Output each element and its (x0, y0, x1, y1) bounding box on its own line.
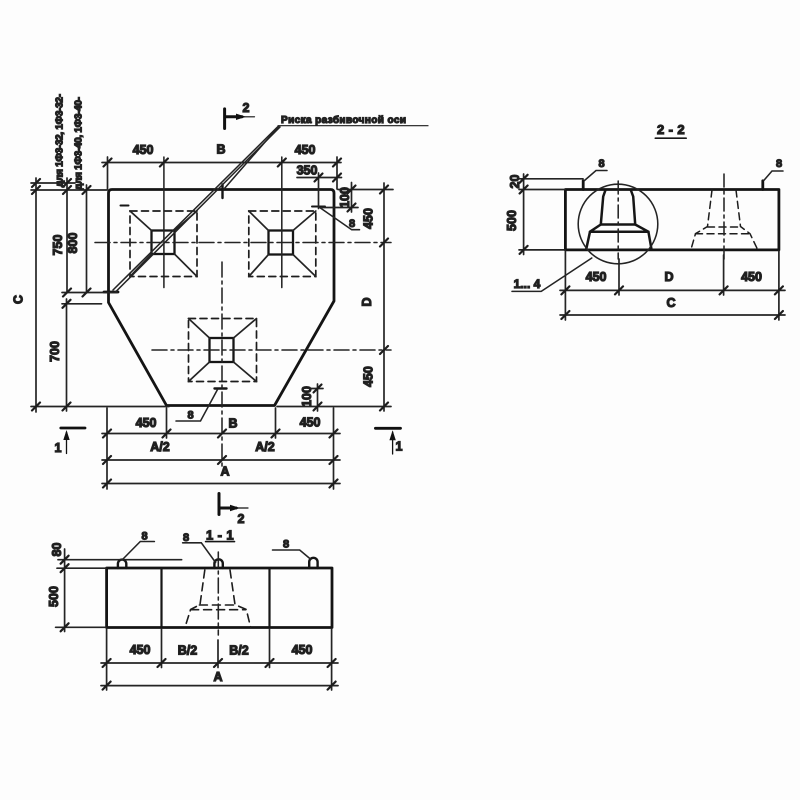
svg-text:700: 700 (48, 341, 62, 362)
lifting loop 3 (309, 558, 317, 568)
section 1-1 bottom dimension rows (101, 629, 338, 690)
svg-text:D: D (360, 297, 374, 306)
plan bottom riska mark (215, 387, 227, 389)
vertical center axis of plan (221, 262, 223, 470)
svg-text:20: 20 (508, 175, 522, 189)
svg-text:450: 450 (136, 416, 157, 430)
section 2-2 right loop tick (761, 181, 764, 190)
dimension 100 bottom right (310, 384, 323, 411)
leader 8 loop3 (273, 550, 311, 559)
svg-text:450: 450 (300, 416, 321, 430)
right socket riska mark (312, 206, 325, 208)
svg-text:1: 1 (55, 441, 62, 455)
leader 8 right socket (319, 207, 360, 230)
svg-text:2: 2 (243, 101, 250, 115)
svg-text:800: 800 (66, 233, 80, 254)
right main dimension column 450 D 450 (277, 183, 391, 411)
section marker 1 left (61, 428, 85, 454)
svg-text:B/2: B/2 (229, 644, 249, 658)
bottom dimension rows of plan (102, 408, 340, 489)
svg-text:D: D (664, 270, 673, 284)
horizontal axis line top sockets (95, 242, 391, 244)
section 2-2 dashed pedestal axis (723, 174, 725, 259)
svg-text:A/2: A/2 (255, 440, 275, 454)
right socket diagonals (249, 211, 316, 277)
svg-text:500: 500 (505, 210, 519, 231)
svg-text:100: 100 (300, 386, 314, 407)
svg-text:100: 100 (338, 187, 352, 208)
left socket dashed square (130, 211, 197, 277)
lifting loop 2 (214, 559, 222, 568)
section 2-2 left dimension column 20 500 (519, 174, 583, 255)
leader 8 loop1 (123, 542, 155, 560)
left socket vertical centerline (163, 157, 165, 288)
svg-text:1... 4: 1... 4 (514, 277, 541, 291)
svg-text:450: 450 (361, 366, 375, 387)
svg-text:B: B (216, 143, 225, 157)
svg-text:1: 1 (396, 440, 403, 454)
svg-text:450: 450 (130, 643, 151, 657)
section 2-2 body rectangle (565, 190, 779, 250)
leader 8 right loop 2-2 (764, 171, 783, 180)
section 2-2 solid pedestal axis (617, 181, 619, 259)
section marker 1 right (375, 428, 400, 454)
section 1-1 joint line right (268, 569, 270, 628)
svg-text:A: A (220, 465, 229, 479)
svg-text:750: 750 (51, 235, 65, 256)
svg-text:8: 8 (349, 218, 355, 230)
leader 8 left loop 2-2 (585, 171, 608, 181)
left dimension columns C 750 800 700 (31, 178, 169, 412)
bottom socket inner square (210, 338, 234, 362)
svg-text:C: C (666, 296, 675, 310)
svg-text:8: 8 (187, 410, 193, 422)
right socket vertical centerline (281, 157, 283, 288)
section 2-2 bottom dimension rows (560, 251, 785, 320)
leader 8 bottom socket (176, 390, 218, 422)
bottom socket diagonals (189, 319, 257, 382)
right socket inner square (269, 231, 294, 255)
svg-text:8: 8 (776, 158, 782, 170)
svg-text:B/2: B/2 (178, 644, 198, 658)
svg-text:450: 450 (133, 143, 154, 157)
svg-text:80: 80 (50, 543, 64, 557)
dimension 350 (297, 173, 342, 209)
leader 8 loop2 (183, 543, 216, 563)
svg-text:450: 450 (295, 143, 316, 157)
svg-text:Риска разбивочной оси: Риска разбивочной оси (281, 114, 406, 126)
section 2-2 left loop tick (582, 181, 585, 190)
svg-text:8: 8 (183, 532, 189, 544)
svg-text:1 - 1: 1 - 1 (206, 528, 234, 543)
lifting loop 1 (118, 560, 126, 568)
section 1-1 center axis (217, 552, 219, 635)
bottom socket dashed square (189, 319, 257, 382)
svg-text:8: 8 (598, 158, 604, 170)
svg-text:B: B (228, 417, 237, 431)
top dimension row 450 B 450 (102, 157, 341, 189)
svg-text:500: 500 (47, 586, 61, 607)
svg-text:450: 450 (741, 270, 762, 284)
svg-text:для 1Ф3-40, 1Ф3-40-: для 1Ф3-40, 1Ф3-40- (74, 97, 85, 190)
detail circle (578, 184, 658, 264)
svg-text:2 - 2: 2 - 2 (657, 122, 685, 137)
section marker 2 top (225, 109, 255, 129)
plan top center riska tick (221, 185, 223, 199)
svg-text:8: 8 (283, 539, 289, 551)
left socket inner square (152, 231, 175, 255)
plan view outline (109, 190, 335, 406)
dimension 100 top right (322, 183, 393, 213)
leader 1...4 (512, 258, 592, 291)
svg-text:для 1Ф3-32, 1Ф3-32-: для 1Ф3-32, 1Ф3-32- (55, 94, 66, 187)
left socket diagonals (130, 211, 197, 277)
section marker 2 bottom (219, 494, 248, 515)
svg-text:C: C (12, 295, 26, 304)
section 1-1 dashed pedestal (185, 570, 251, 627)
svg-text:8: 8 (141, 531, 147, 543)
callout underline (278, 125, 428, 127)
horizontal axis line bottom socket (152, 349, 391, 351)
svg-text:2: 2 (238, 512, 245, 526)
section 2-2 solid pedestal (586, 190, 651, 249)
svg-text:450: 450 (292, 643, 313, 657)
callout leader lines (113, 126, 280, 292)
svg-text:450: 450 (362, 208, 376, 229)
svg-text:A/2: A/2 (150, 440, 170, 454)
svg-text:350: 350 (297, 164, 318, 178)
right socket dashed square (249, 211, 316, 277)
section 1-1 joint line left (160, 569, 162, 628)
svg-text:A: A (213, 670, 222, 684)
section 1-1 left dimension column 80 500 (56, 549, 182, 632)
section 1-1 body rectangle (107, 568, 332, 628)
section 2-2 dashed pedestal (691, 190, 758, 249)
left socket riska mark (121, 205, 129, 207)
svg-text:450: 450 (586, 270, 607, 284)
plan left corner riska mark (104, 291, 118, 294)
